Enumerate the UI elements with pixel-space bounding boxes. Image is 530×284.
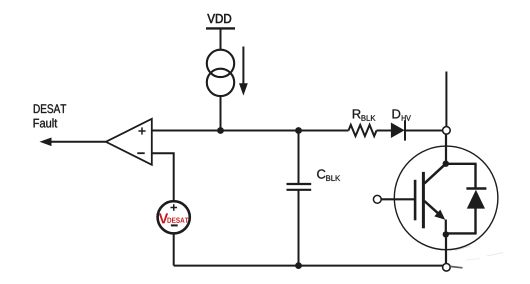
voltage source VDESAT xyxy=(158,201,190,233)
output wire with arrow (DESAT Fault) xyxy=(40,138,106,147)
resistor R_BLK xyxy=(349,125,377,136)
IGBT module outline circle xyxy=(394,146,498,250)
freewheel diode D2 triangle xyxy=(467,190,485,209)
wire top collector feed xyxy=(445,72,447,127)
junction C_BLK / main wire xyxy=(295,127,302,134)
faint watermark smudge xyxy=(450,246,503,268)
wire diode to collector node xyxy=(405,130,443,132)
junction current source / main wire xyxy=(217,127,224,134)
C_BLK label xyxy=(317,169,340,180)
wire emitter to freewheel diode (bottom) xyxy=(446,232,477,234)
DESAT Fault label xyxy=(34,104,67,127)
VDD label xyxy=(207,14,231,23)
transistor Q1 IGBT body bar xyxy=(422,172,425,228)
wire main horizontal (comparator + input to resistor) xyxy=(152,130,349,132)
VDESAT minus mark xyxy=(171,224,178,226)
D_HV label xyxy=(393,109,411,120)
wire terminal into IGBT xyxy=(445,134,447,161)
node terminal (open circle) emitter xyxy=(443,264,451,272)
current source I1 (two overlapping circles) xyxy=(207,50,234,96)
freewheel diode D2 cathode bar xyxy=(466,187,486,189)
VDESAT value label xyxy=(159,213,189,223)
transistor Q1 IGBT gate bar xyxy=(414,180,417,221)
wire emitter vertical xyxy=(445,220,447,235)
minus input mark xyxy=(137,152,144,154)
junction C_BLK / bottom rail xyxy=(295,262,302,269)
node collector junction dot xyxy=(443,161,449,167)
diode D_HV xyxy=(391,120,405,140)
op-amp comparator U1 xyxy=(106,119,152,165)
wire capacitor to bottom rail xyxy=(298,190,300,265)
wire bottom rail xyxy=(174,265,443,267)
plus input mark xyxy=(138,127,145,134)
wire gate lead xyxy=(381,198,414,200)
node emitter junction dot xyxy=(443,231,449,237)
VDESAT plus mark xyxy=(171,204,178,211)
wire emitter down to terminal xyxy=(445,236,447,264)
wire main node to capacitor xyxy=(298,131,300,184)
wire freewheel diode upper lead xyxy=(474,164,476,189)
transistor Q1 collector stroke xyxy=(424,164,445,184)
current direction arrow xyxy=(239,47,248,96)
wire minus input to VDESAT xyxy=(152,153,174,201)
R_BLK label xyxy=(353,109,376,120)
gate terminal (open circle) xyxy=(373,195,381,203)
node terminal (open circle) collector xyxy=(443,127,451,135)
wire current source to main node xyxy=(220,96,222,131)
wire VDD bar to current source xyxy=(220,28,222,50)
wire VDESAT to bottom rail xyxy=(173,233,175,265)
wire freewheel diode lower lead xyxy=(474,208,476,233)
capacitor C_BLK xyxy=(287,184,312,190)
transistor Q1 emitter stroke with arrow xyxy=(424,201,445,220)
VDD rail bar xyxy=(206,27,235,29)
wire resistor to diode xyxy=(377,130,392,132)
wire collector to freewheel diode (top) xyxy=(446,163,477,165)
